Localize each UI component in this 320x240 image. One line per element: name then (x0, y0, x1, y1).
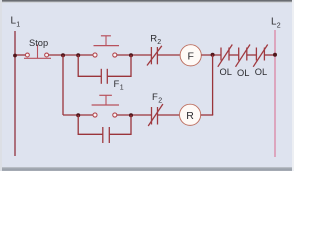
node L2 rail (274, 30, 276, 157)
node junction dot rung1 start (13, 54, 17, 58)
contact F2 (NC interlock) (148, 104, 163, 126)
svg-text:F: F (152, 92, 158, 103)
wire coil F to junction (201, 54, 221, 56)
wire F1 branch right (108, 55, 131, 76)
contact OL 3 (253, 45, 268, 67)
wire rev-PB to F2 contact (117, 114, 151, 116)
label F2 (152, 92, 162, 105)
wire fwd-PB to R2 contact (117, 54, 151, 56)
wire coil R to vertical (201, 114, 214, 116)
contact OL 2 (236, 45, 251, 67)
contact F1 (NO holding) (101, 69, 107, 84)
label L2 (271, 17, 281, 30)
pushbutton Reverse (NO) (92, 95, 119, 117)
node junction dot at L2 (273, 53, 277, 57)
svg-text:1: 1 (120, 85, 124, 92)
label R2 (150, 34, 161, 47)
label F1 (114, 79, 124, 92)
svg-text:OL: OL (255, 67, 267, 77)
node junction dot R1-branch right (129, 113, 133, 117)
node junction dot coil output (211, 53, 215, 57)
wire R2 to coil F (158, 54, 181, 56)
wire drop rung1 to rung2 at x63 (62, 55, 64, 115)
coil F (180, 45, 201, 66)
node junction dot F1-branch right (129, 53, 133, 57)
wire OL1-OL2 (229, 54, 239, 56)
wire OL3 to L2 (264, 54, 275, 56)
node junction dot F1-branch left (76, 53, 80, 57)
wire rung1 rail to Stop (15, 54, 25, 56)
contact R1 (NO holding) (103, 127, 110, 143)
svg-text:F: F (114, 79, 120, 90)
svg-text:OL: OL (237, 68, 249, 78)
svg-text:R: R (186, 110, 194, 122)
pushbutton Forward (NO) (93, 36, 119, 57)
svg-text:2: 2 (277, 23, 281, 30)
wire R1 branch right (110, 115, 131, 134)
node L1 rail (14, 31, 16, 156)
coil R (180, 104, 201, 125)
wire drop junction to R coil (212, 55, 214, 115)
wire F1 holding branch (78, 55, 101, 76)
node junction dot rung2 tap (61, 53, 65, 57)
node junction dot R1-branch left (76, 113, 80, 117)
svg-text:F: F (187, 51, 193, 63)
svg-text:OL: OL (220, 67, 232, 77)
wire rung2 left (63, 114, 93, 116)
label OL OL OL (220, 67, 268, 78)
wire R1 holding branch left (78, 115, 102, 134)
contact OL 1 (218, 45, 233, 67)
contact R2 (NC interlock) (147, 46, 162, 66)
svg-text:2: 2 (157, 39, 161, 46)
wire F2 to coil R (158, 114, 180, 116)
wire OL2-OL3 (247, 54, 257, 56)
wire Stop to fwd-PB (49, 54, 93, 56)
pushbutton Stop (NC) (24, 45, 51, 59)
svg-text:Stop: Stop (29, 38, 48, 48)
svg-text:2: 2 (158, 98, 162, 105)
label L1 (11, 16, 21, 29)
svg-text:1: 1 (16, 22, 20, 29)
